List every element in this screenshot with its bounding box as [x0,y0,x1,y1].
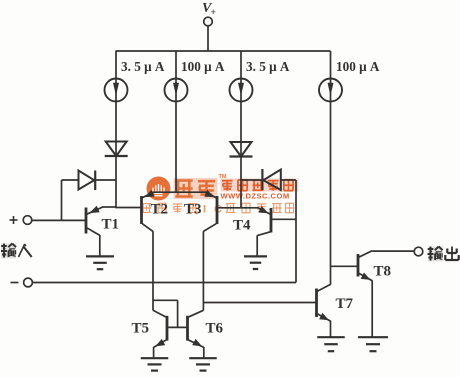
wire T2/T3 emitter rail [153,191,207,193]
svg-text:100 μ A: 100 μ A [336,59,380,74]
watermark text 维库 [174,178,218,199]
wire T3 base to T4 emitter node [217,207,258,209]
diode D3 (points right) [79,171,96,191]
svg-text:T6: T6 [206,321,224,337]
wire branch2 bus to source [175,51,177,193]
wire node A to diode D3 left [62,180,79,220]
wire diode D3 to branch1 node [95,179,116,181]
svg-text:WWW.DZSC.COM: WWW.DZSC.COM [221,192,290,201]
svg-text:T3: T3 [184,202,202,218]
wire branch3 diode to node B [240,157,242,209]
label + (noninverting input) [10,216,18,224]
svg-text:T7: T7 [336,296,354,312]
ground below T1 [86,255,114,257]
svg-text:I: I [203,204,206,216]
svg-text:3. 5 μ A: 3. 5 μ A [246,59,290,74]
transistor T4 [257,206,296,256]
current source I2 100uA [165,79,188,102]
wire T3 collector down [202,231,204,310]
wire top supply bus [116,50,331,52]
transistor T6 [188,310,204,358]
wire branch1 diode to node A [115,156,117,208]
power terminal V+ circle [204,17,213,26]
diode D1 [105,142,128,157]
transistor T7 [317,284,331,337]
wire V+ stem [207,26,209,51]
wire branch1 bus to source [115,51,117,156]
ground below T4 [244,255,267,257]
wire - input to T4 base branch [32,180,296,283]
svg-text:+: + [211,8,216,18]
wire branch4 to T8 base [331,265,358,267]
svg-text:100 μ A: 100 μ A [181,59,225,74]
diode D2 [230,142,253,157]
wire branch3 bus to source [240,51,242,157]
wire diode D4 to node C [281,179,296,181]
label - (inverting input) [11,282,19,284]
transistor T2 [142,190,155,231]
svg-text:T2: T2 [151,202,169,218]
wire node A to T2 base [115,207,141,209]
ground below T6 [189,357,217,359]
transistor T1 [86,206,116,256]
wire branch3 node to diode D4 [241,179,262,181]
current source I1 3.5uA [105,79,128,102]
watermark logo circle (dzsc) [147,177,171,201]
svg-text:3. 5 μ A: 3. 5 μ A [121,59,165,74]
power terminal V+ label [202,1,216,18]
svg-text:T8: T8 [374,264,392,280]
wire T6 collector to T7 base [203,302,316,304]
watermark url WWW.DZSC.COM [221,192,290,201]
svg-text:T5: T5 [132,321,150,337]
wire branch4 bus to source [330,51,332,285]
ground below T5 [141,357,169,359]
transistor T8 [358,251,372,337]
input terminal - circle [24,278,33,287]
label 输出 output [428,247,459,262]
svg-text:T1: T1 [102,217,120,233]
transistor T3 [203,190,217,231]
watermark text 全球最大IC采购网站 [142,203,294,215]
ground below T8 [358,336,388,338]
transistor T5 [153,310,167,358]
wire T5 base tap elbow [153,300,178,327]
current source I3 3.5uA [230,79,253,102]
wire + input to T1 base [32,219,85,221]
wire T5-T6 base link [167,326,188,328]
ground below T7 [317,336,345,338]
wire T8 collector to output [372,250,414,252]
input terminal + circle [23,216,32,225]
watermark text 电子市场网 [221,179,299,192]
wire T2 collector down [152,231,154,310]
svg-text:T4: T4 [233,218,251,234]
current source I4 100uA [319,79,342,102]
diode D4 (points left) [262,169,280,190]
output terminal circle [414,247,423,256]
label 输入 input [1,244,32,259]
